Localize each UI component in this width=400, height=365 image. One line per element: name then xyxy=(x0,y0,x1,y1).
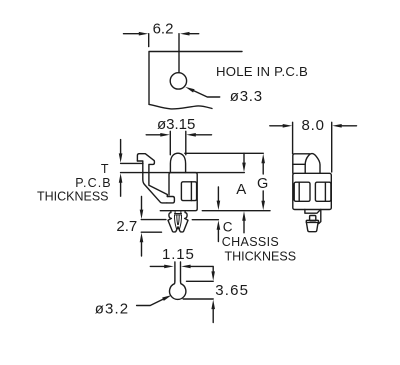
bottom view circle with slot notch xyxy=(170,281,186,299)
svg-text:HOLE IN P.C.B: HOLE IN P.C.B xyxy=(216,64,308,79)
G top arrow xyxy=(261,154,265,164)
3.65 top arrow xyxy=(211,271,215,281)
svg-text:ø3.3: ø3.3 xyxy=(230,88,263,105)
side view inner slot xyxy=(181,182,196,201)
dim 3.15 extension left xyxy=(169,131,171,155)
front view head divider xyxy=(293,163,305,165)
front view neck xyxy=(305,210,320,214)
side view inner slot divider xyxy=(190,182,192,201)
dim 3.15 line right xyxy=(195,134,212,136)
leader line for hole dia 3.3 xyxy=(194,91,220,97)
arm tip pad xyxy=(167,197,175,203)
dim 1.15 line right with corner to 3.65 arrow xyxy=(190,266,214,272)
dim 3.15 line left xyxy=(146,134,161,136)
dim 8.0 extension right xyxy=(331,122,333,172)
svg-text:2.7: 2.7 xyxy=(116,218,137,235)
hook flag and stem xyxy=(137,154,167,197)
snap neck side view xyxy=(168,211,188,232)
T dim upper line xyxy=(121,162,143,164)
C bottom arrow xyxy=(217,229,219,242)
svg-text:T: T xyxy=(101,162,109,176)
chassis bottom line right segment xyxy=(192,219,218,221)
pcb top long line / A upper extension xyxy=(121,172,245,174)
dim 8.0 line left xyxy=(270,125,284,127)
dim 6.2 arrow right xyxy=(180,32,190,36)
front view left slot xyxy=(294,182,310,201)
hole center line xyxy=(178,34,180,73)
bottom dimension line right of body xyxy=(202,210,270,212)
dim 8.0 extension left xyxy=(292,122,294,153)
dim 3.15 arrow left xyxy=(160,133,170,137)
front view right slot divider xyxy=(324,182,326,201)
front view right slot xyxy=(315,182,331,201)
svg-text:6.2: 6.2 xyxy=(153,20,174,37)
front view button xyxy=(310,216,316,221)
dim 6.2 line left xyxy=(124,33,141,35)
dim 6.2 extension tick xyxy=(148,34,150,47)
front view head box xyxy=(293,154,310,174)
svg-text:P.C.B: P.C.B xyxy=(75,176,112,190)
2.7 bottom arrow xyxy=(141,241,143,256)
dim 6.2 arrow left xyxy=(139,32,149,36)
2.7 top arrow xyxy=(141,197,143,211)
snap tip bottom line xyxy=(141,231,161,233)
chassis bottom line left segment xyxy=(141,219,166,221)
dim 3.15 arrow right xyxy=(186,133,196,137)
svg-text:8.0: 8.0 xyxy=(302,117,325,134)
svg-text:THICKNESS: THICKNESS xyxy=(225,249,297,263)
svg-text:ø3.15: ø3.15 xyxy=(157,116,195,133)
svg-text:THICKNESS: THICKNESS xyxy=(37,189,109,203)
front view post bullet xyxy=(305,154,320,174)
side view body outline xyxy=(160,173,197,211)
svg-text:G: G xyxy=(257,176,268,192)
svg-text:CHASSIS: CHASSIS xyxy=(222,235,279,249)
svg-text:C: C xyxy=(223,220,233,235)
pcb top view outline xyxy=(149,52,242,105)
T dim top arrow xyxy=(120,140,122,155)
pcb break wavy line xyxy=(149,104,212,109)
snap inner right prong xyxy=(178,215,181,229)
G bottom arrow xyxy=(262,191,264,202)
leader line for dia 3.2 xyxy=(137,299,164,306)
dim 3.15 extension right xyxy=(185,131,187,155)
leader arrow for dia 3.2 xyxy=(162,295,171,301)
front view left slot divider xyxy=(298,182,300,201)
front view right tab xyxy=(319,210,321,224)
leader arrow for hole dia 3.3 xyxy=(185,87,194,93)
hole circle in pcb xyxy=(170,73,186,89)
A top arrow hanging from G line xyxy=(243,153,245,163)
dim 8.0 line right xyxy=(341,125,357,127)
svg-text:A: A xyxy=(236,181,246,198)
svg-text:1.15: 1.15 xyxy=(162,246,195,263)
post bullet side view xyxy=(170,153,185,172)
dim 6.2 line right xyxy=(189,33,199,35)
hook lower edge and arm xyxy=(137,161,167,203)
T dim bottom arrow xyxy=(120,182,122,196)
svg-text:ø3.2: ø3.2 xyxy=(95,301,129,318)
front view foot xyxy=(306,222,318,231)
svg-text:3.65: 3.65 xyxy=(215,282,249,299)
3.65 top line xyxy=(187,280,214,282)
A bottom arrow xyxy=(243,220,245,233)
C top arrow xyxy=(217,187,219,202)
front view body xyxy=(293,173,332,209)
3.65 bottom arrow xyxy=(212,308,214,322)
snap inner left prong xyxy=(174,215,177,229)
dim 1.15 extensions xyxy=(174,262,176,281)
snap inner crossbar xyxy=(175,211,182,215)
3.65 bottom line xyxy=(183,298,213,300)
dim 1.15 line left xyxy=(150,265,165,267)
G top line from post tip xyxy=(185,152,263,154)
front view collar xyxy=(306,220,318,222)
